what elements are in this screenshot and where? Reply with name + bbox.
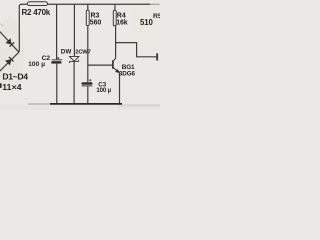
svg-text:560: 560 <box>90 20 102 27</box>
svg-text:R4: R4 <box>117 12 126 19</box>
resistor R4 body <box>113 10 116 25</box>
base bar <box>112 60 114 69</box>
wire zener to bottom rail <box>73 61 75 103</box>
wire C3 to bottom rail <box>87 86 89 103</box>
diode D (upper, arrow to vertex) <box>6 39 14 47</box>
transistor BG1 (NPN) <box>113 58 120 73</box>
svg-text:100 µ: 100 µ <box>96 87 111 94</box>
svg-text:100 µ: 100 µ <box>28 61 45 68</box>
svg-text:DW: DW <box>61 49 72 56</box>
emitter diagonal <box>113 67 119 72</box>
svg-text:510: 510 <box>140 18 153 27</box>
svg-text:R2 470k: R2 470k <box>22 8 51 17</box>
wire DW branch upper <box>73 4 75 56</box>
wire R3 branch upper <box>87 4 89 10</box>
wire R4 branch upper <box>114 4 116 10</box>
cut character at left edge <box>0 83 2 88</box>
top rail fading right end <box>150 3 160 5</box>
wire base node down to C3 <box>87 65 89 82</box>
wire R4 to collector <box>115 26 117 58</box>
zener diode DW 2CW7 <box>70 56 79 63</box>
wire bridge lower diagonal <box>0 52 19 72</box>
bottom scan shading <box>0 105 160 110</box>
svg-text:11×4: 11×4 <box>2 82 22 92</box>
resistor R3 body <box>86 10 89 25</box>
top rail wire <box>21 3 150 5</box>
diode D (lower, arrow to vertex) <box>6 57 14 65</box>
wire left vertical (bridge + output) <box>19 4 21 52</box>
bottom rail <box>50 103 122 105</box>
output terminal bar <box>156 53 158 60</box>
paper background <box>0 0 160 110</box>
wire base node to transistor base <box>88 64 112 66</box>
svg-text:3DG6: 3DG6 <box>119 71 136 78</box>
svg-text:D1~D4: D1~D4 <box>2 72 28 82</box>
resistor R2 body <box>28 2 48 6</box>
wire C2 to bottom rail <box>56 64 58 104</box>
wire collector node to output corner <box>116 43 157 57</box>
emitter arrowhead <box>115 69 119 73</box>
capacitor C2 (electrolytic, + top) <box>52 59 62 61</box>
wire emitter to bottom rail <box>119 73 121 104</box>
collector diagonal <box>113 58 116 61</box>
wire R3 to base node <box>87 26 89 66</box>
capacitor C3 (electrolytic, + top) <box>89 79 91 81</box>
scan mottling <box>0 17 24 93</box>
svg-text:16k: 16k <box>116 20 128 27</box>
wire bridge upper diagonal <box>0 31 19 52</box>
svg-text:R3: R3 <box>91 12 100 19</box>
faint scan mark top-left <box>0 23 4 27</box>
svg-text:R5: R5 <box>153 13 160 20</box>
wire C2 branch upper <box>56 4 58 59</box>
bottom rail faint left part <box>28 103 52 105</box>
